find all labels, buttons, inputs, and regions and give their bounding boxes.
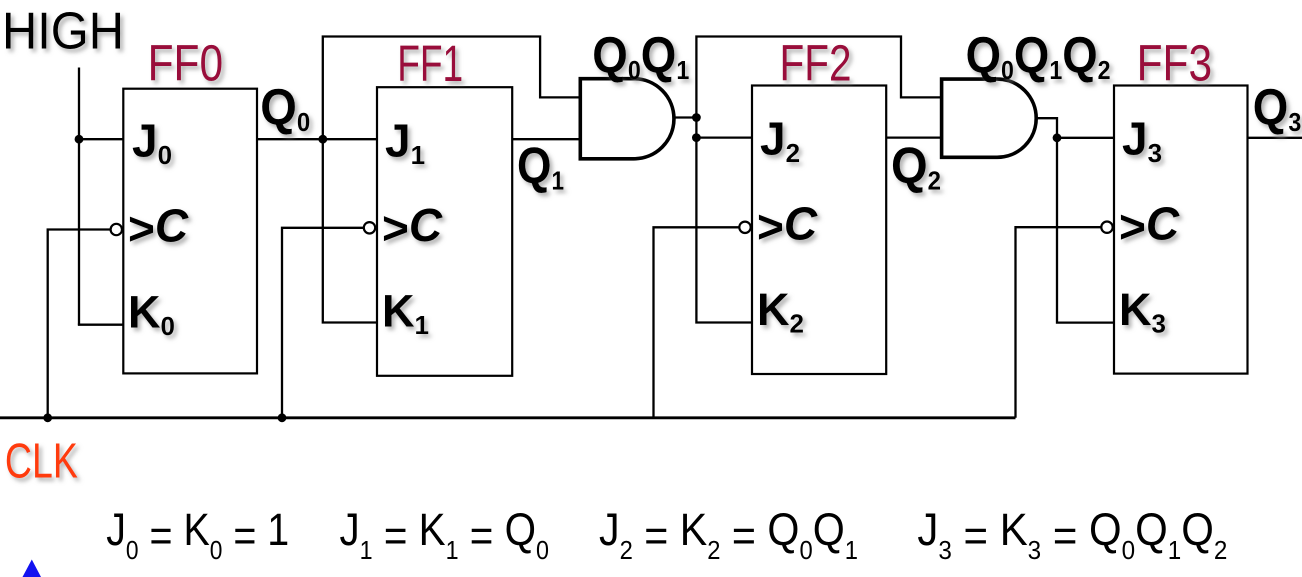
svg-text:Q2: Q2 [891,137,941,196]
AND gate G1 [580,79,674,159]
svg-text:J3 = K3 = Q0Q1Q2: J3 = K3 = Q0Q1Q2 [917,504,1227,565]
svg-text:Q0: Q0 [260,79,310,138]
svg-text:K2: K2 [757,284,804,339]
wire Q2 output [886,136,941,138]
wire FF0 clock [48,230,111,418]
wire FF3 clock from CLK bus corner [1016,227,1102,418]
svg-text:J2 = K2 = Q0Q1: J2 = K2 = Q0Q1 [599,504,858,565]
wire K1 feed [323,139,377,322]
bullet triangle [23,560,42,577]
wire CLK bus [0,416,1016,419]
svg-text:>C: >C [128,200,189,255]
flip-flop FF2 box [752,86,886,375]
svg-text:HIGH: HIGH [2,2,124,60]
clock bubble FF0 [111,224,122,235]
svg-text:J3: J3 [1122,113,1162,169]
node J0 junction [75,135,84,144]
wire J1 input [323,138,377,140]
node J3 junction [1053,133,1062,142]
wire K0 feed [78,324,123,326]
flip-flop FF0 box [123,89,257,374]
svg-text:K1: K1 [382,286,429,341]
wire AND1 output [674,116,697,118]
svg-text:FF0: FF0 [148,35,224,92]
svg-text:CLK: CLK [5,435,78,489]
node FF0 clock on CLK bus [43,413,52,422]
flip-flop FF1 box [377,87,512,376]
wire J3 input [1057,137,1114,139]
wire AND2 output and K3 feed [1036,118,1114,322]
wire FF2 clock [654,227,740,417]
clock bubble FF3 [1101,222,1112,233]
AND gate G2 [942,79,1037,157]
svg-text:K3: K3 [1119,284,1166,339]
wire J2 input [696,136,752,138]
wire Q1 output [512,138,580,140]
clock bubble FF2 [739,222,750,233]
wire Q0 to AND1 top input [323,37,581,140]
wire J0 input [79,138,123,140]
svg-text:Q1: Q1 [517,137,564,196]
svg-text:J1: J1 [385,115,425,171]
flip-flop FF3 box [1114,86,1248,374]
wire FF1 clock [282,228,364,418]
svg-text:J0 = K0 = 1: J0 = K0 = 1 [106,504,289,565]
svg-text:FF2: FF2 [780,35,852,92]
node AND1 output junction [692,113,701,122]
svg-text:Q3: Q3 [1253,79,1302,138]
wire K2 feed [696,118,752,323]
svg-text:Q0Q1: Q0Q1 [592,27,689,86]
svg-text:J2: J2 [760,113,800,169]
node Q0 junction [318,135,327,144]
wire Q0 output [257,138,323,140]
svg-text:FF3: FF3 [1137,35,1213,92]
wire HIGH rail vertical [78,68,80,325]
svg-text:J0: J0 [132,115,172,171]
node FF1 clock on CLK bus [278,413,287,422]
svg-text:>C: >C [382,199,443,254]
svg-text:K0: K0 [128,287,175,342]
svg-text:FF1: FF1 [397,35,463,92]
clock bubble FF1 [364,222,375,233]
wire Q0Q1 to AND2 top input [696,37,941,118]
svg-text:>C: >C [757,198,818,253]
wire Q3 output [1248,137,1302,139]
node J2 junction [692,133,701,142]
svg-text:J1 = K1 = Q0: J1 = K1 = Q0 [340,504,550,565]
svg-text:>C: >C [1119,198,1180,253]
svg-text:Q0Q1Q2: Q0Q1Q2 [966,27,1111,86]
